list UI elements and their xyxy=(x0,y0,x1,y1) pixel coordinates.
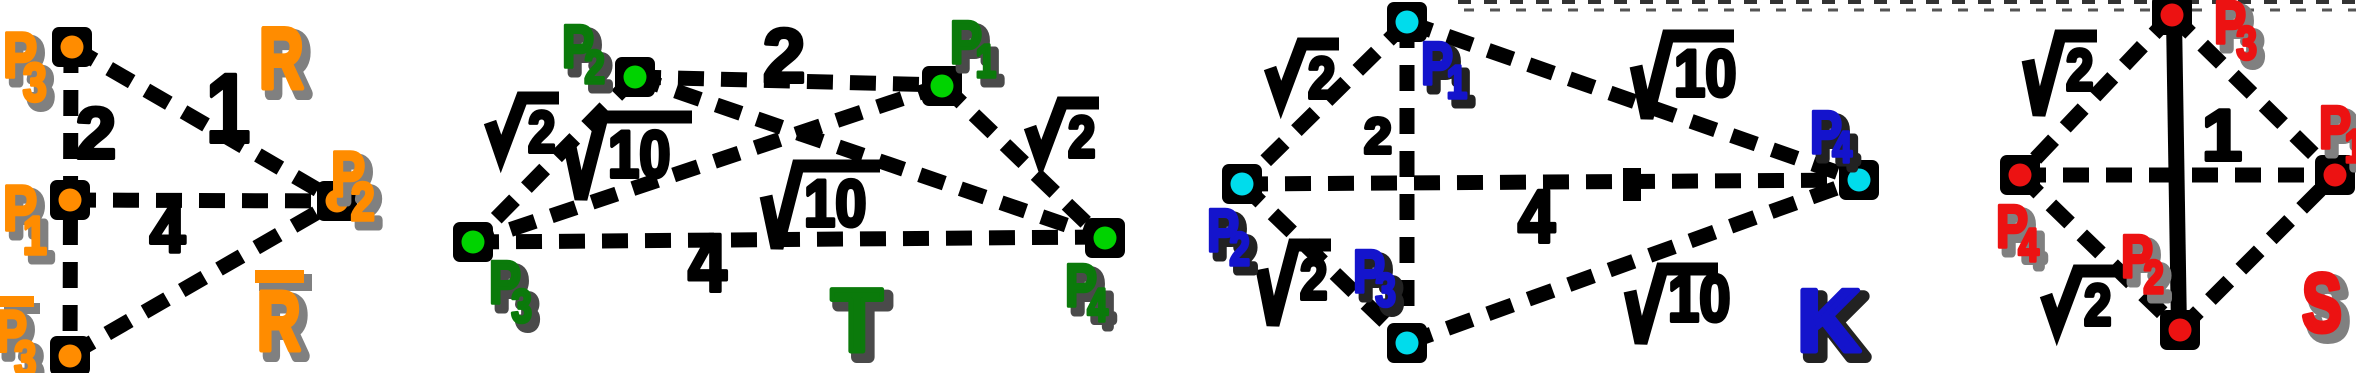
clipped dashed line at top edge xyxy=(1458,0,2356,4)
svg-text:10: 10 xyxy=(1674,37,1736,110)
wire K P1-P2 xyxy=(1242,22,1407,184)
label S P1 xyxy=(2325,100,2356,178)
label T P4 xyxy=(1071,258,1114,337)
label S P3 xyxy=(2220,0,2263,75)
node S P1 xyxy=(2315,155,2355,195)
label S xyxy=(2308,264,2348,356)
label R xyxy=(265,16,310,112)
label S P2 xyxy=(2127,229,2170,309)
svg-text:R: R xyxy=(257,274,301,368)
node K P1 xyxy=(1387,2,1427,42)
node P3bar xyxy=(50,336,90,373)
svg-text:2: 2 xyxy=(763,14,805,99)
edge label sqrt2 right xyxy=(1030,103,1099,170)
node T P3 xyxy=(453,222,493,262)
svg-text:2: 2 xyxy=(2084,273,2111,338)
edge label sqrt10 upper xyxy=(570,117,692,199)
wire K P1-P3 xyxy=(1400,22,1415,343)
svg-text:2: 2 xyxy=(1308,46,1335,111)
edge label 4 on horizontal xyxy=(150,196,185,266)
svg-text:P1: P1 xyxy=(2319,94,2356,172)
wire S P2-P1 xyxy=(2180,175,2335,330)
label T P1 xyxy=(956,15,1002,93)
svg-text:2: 2 xyxy=(528,100,555,165)
edge label sqrt10 center xyxy=(766,166,880,248)
label T P2 xyxy=(568,19,611,99)
svg-text:1: 1 xyxy=(206,55,250,163)
label P3 xyxy=(9,27,53,119)
label K P2 xyxy=(1213,203,1256,281)
label K xyxy=(1803,277,1867,373)
wire S P3-P2 solid xyxy=(2174,18,2179,330)
edge label 4 bottom xyxy=(688,218,727,310)
svg-text:10: 10 xyxy=(608,118,670,191)
svg-text:10: 10 xyxy=(1668,262,1730,335)
label K P3 xyxy=(1359,244,1402,322)
node S P2 xyxy=(2160,310,2200,350)
wire T P2-P1 xyxy=(635,77,943,85)
label K P4 xyxy=(1816,105,1858,178)
node P1 xyxy=(50,180,90,220)
wire R P3-P2 xyxy=(72,47,337,201)
edge label S 1 xyxy=(2202,96,2242,176)
svg-text:2: 2 xyxy=(2066,38,2093,103)
node K P3 xyxy=(1387,323,1427,363)
edge label K sqrt10 bottom-right xyxy=(1630,262,1730,343)
wire T P2-P3 xyxy=(473,77,635,242)
svg-text:2: 2 xyxy=(1068,105,1095,170)
svg-text:S: S xyxy=(2302,258,2342,350)
label P1 xyxy=(9,180,53,272)
svg-text:2: 2 xyxy=(1364,108,1392,164)
edge label sqrt2 left xyxy=(490,98,559,165)
svg-text:4: 4 xyxy=(1518,175,1555,258)
label P3bar overbar xyxy=(4,303,40,314)
svg-text:4: 4 xyxy=(150,196,185,266)
edge label 2 top xyxy=(763,14,805,99)
label Rbar xyxy=(259,274,312,291)
wire T P3-P4 xyxy=(473,237,1101,242)
wire R P3-P3bar xyxy=(70,47,71,355)
node K P4 xyxy=(1839,160,1879,200)
edge label S sqrt2 top-left xyxy=(2028,36,2097,115)
label P3bar xyxy=(2,305,42,373)
node P3 xyxy=(52,27,92,67)
node T P1 xyxy=(922,66,962,106)
edge label K 2 center xyxy=(1364,108,1392,164)
label T P3 xyxy=(495,255,538,338)
svg-text:2: 2 xyxy=(1300,247,1327,312)
edge label K sqrt2 top-left xyxy=(1270,44,1339,111)
wire R P1-P2 xyxy=(70,200,337,201)
edge label S sqrt2 bottom-left xyxy=(2046,271,2115,338)
wire T P1-P4 xyxy=(943,85,1101,237)
edge label 2 on vertical xyxy=(76,94,116,174)
wire S P4-P1 xyxy=(2020,168,2335,183)
node S P4 xyxy=(2000,155,2040,195)
svg-text:R: R xyxy=(259,10,304,106)
svg-text:4: 4 xyxy=(688,218,727,310)
svg-text:1: 1 xyxy=(2202,96,2242,176)
wire R P3bar-P2 xyxy=(70,201,337,355)
node S P3 xyxy=(2152,0,2192,35)
wire K P2-P3 xyxy=(1242,184,1407,343)
wire S P4-P2 xyxy=(2020,175,2180,330)
svg-text:K: K xyxy=(1797,271,1861,370)
label S P4 xyxy=(2002,199,2045,277)
wire K P2-P4 xyxy=(1242,180,1859,184)
wire T P2-P4 xyxy=(635,77,1101,237)
node T P2 xyxy=(615,57,655,97)
node K P2 xyxy=(1222,164,1262,204)
label T xyxy=(837,277,889,373)
svg-text:10: 10 xyxy=(804,167,866,240)
edge label K sqrt10 top-right xyxy=(1636,36,1736,118)
wire T P1-P3 xyxy=(473,85,943,242)
node T P4 xyxy=(1085,218,1125,258)
edge label K sqrt2 bottom-left xyxy=(1262,245,1331,325)
svg-text:T: T xyxy=(831,271,883,370)
wire K P3-P4 xyxy=(1407,180,1859,343)
edge label K 4 xyxy=(1518,175,1555,258)
wire S P3-P1 xyxy=(2172,15,2335,175)
node P2 xyxy=(317,181,357,221)
label P2 xyxy=(337,146,381,238)
edge label 1 on upper diagonal xyxy=(206,55,250,163)
svg-text:2: 2 xyxy=(76,94,116,174)
junction tick on K horizontal xyxy=(1623,168,1641,201)
label K P1 xyxy=(1427,36,1473,114)
wire K P1-P4 xyxy=(1407,22,1859,180)
wire S P3-P4 xyxy=(2020,15,2172,175)
